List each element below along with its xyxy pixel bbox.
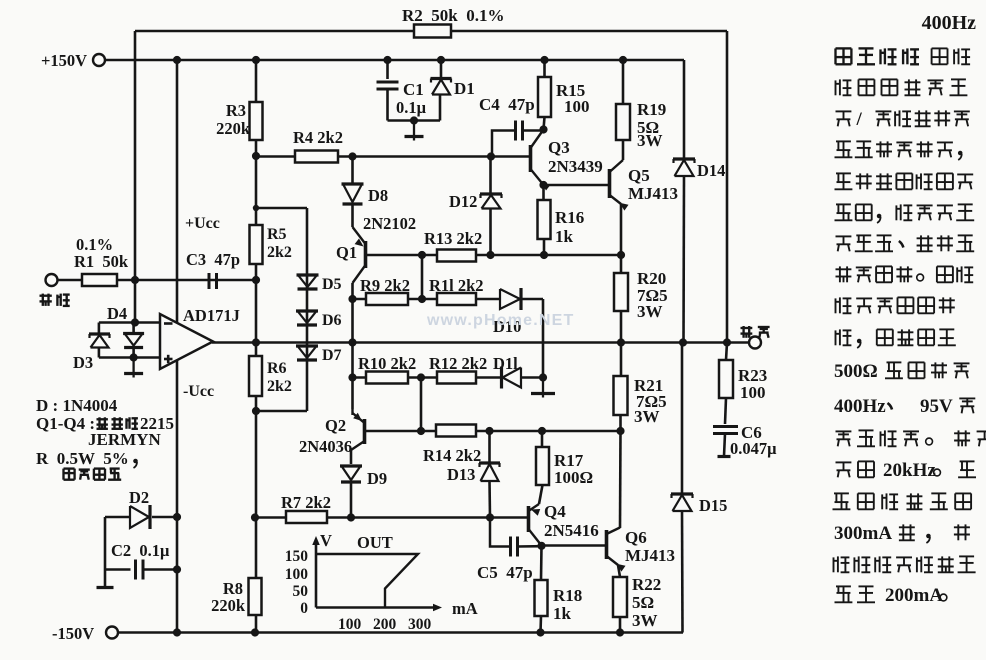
svg-text:D14: D14 <box>697 161 725 180</box>
wire D15 hang <box>681 343 684 494</box>
svg-text:0.047μ: 0.047μ <box>730 439 777 458</box>
diode D11 <box>500 367 503 389</box>
svg-text:50: 50 <box>293 583 309 600</box>
svg-text:www.pHome.NET: www.pHome.NET <box>426 312 574 329</box>
node R10 left junction <box>348 373 356 381</box>
svg-text:V: V <box>320 531 332 550</box>
resistor R22 <box>613 577 627 617</box>
node D8 top junction <box>348 152 356 160</box>
svg-text:R1l 2k2: R1l 2k2 <box>429 276 484 295</box>
svg-text:D5: D5 <box>322 276 342 293</box>
svg-text:200mA: 200mA <box>885 585 943 606</box>
diode D14 <box>673 157 695 160</box>
resistor R10 <box>366 372 408 384</box>
resistor R4 <box>295 151 338 163</box>
wire Q2 emitter to D9 <box>350 450 353 464</box>
wire diode-chain top <box>256 207 307 210</box>
node feedback R23 junction <box>723 338 731 346</box>
svg-text:C2 0.1μ: C2 0.1μ <box>111 541 170 560</box>
wire R14 line y431 <box>421 430 621 433</box>
node R21 bottom junction <box>616 427 624 435</box>
svg-text:R13 2k2: R13 2k2 <box>424 229 482 248</box>
svg-text:D6: D6 <box>322 312 342 329</box>
wire D14 to output rail <box>682 176 685 343</box>
wire R10 R12 D11 line y377.5 <box>353 376 501 379</box>
diode D8 <box>342 182 364 185</box>
wire +150V rail <box>105 59 684 62</box>
svg-text:1k: 1k <box>553 604 572 623</box>
diode D13 <box>479 461 500 464</box>
wire Q1 base line y255 <box>366 254 622 257</box>
wire -150V rail <box>118 631 683 634</box>
svg-text:100Ω: 100Ω <box>554 468 593 487</box>
wire Q1 emitter vertical <box>351 283 354 409</box>
diode D4 <box>123 332 144 335</box>
svg-text:R9 2k2: R9 2k2 <box>360 276 410 295</box>
svg-text:100: 100 <box>740 383 766 402</box>
wire Q3 emitter to Q5 base <box>544 184 610 187</box>
svg-text:D12: D12 <box>449 192 477 211</box>
svg-text:200: 200 <box>373 616 397 633</box>
diode D3 <box>89 332 110 335</box>
wire D10-D11 vertical <box>542 299 545 378</box>
svg-text:400Hz: 400Hz <box>922 12 977 34</box>
graph OUT curve <box>316 554 418 608</box>
node R14 left junction <box>417 427 425 435</box>
ground below D4 <box>132 358 134 374</box>
diode D2 <box>105 516 130 519</box>
resistor R23 <box>726 343 727 361</box>
wire R13-R9 vertical <box>421 255 424 299</box>
wire R7 line to Q4 base <box>255 516 529 519</box>
svg-text:+150V: +150V <box>41 51 87 70</box>
capacitor C4 <box>514 121 517 141</box>
svg-text:D3: D3 <box>73 353 93 372</box>
wire opamp minus input <box>134 280 137 323</box>
svg-text:2k2: 2k2 <box>267 244 292 261</box>
svg-text:MJ413: MJ413 <box>625 546 675 565</box>
svg-text:0: 0 <box>300 600 308 617</box>
wire Q6 collector vertical <box>619 431 622 528</box>
wire Ucc supply vertical <box>176 60 179 633</box>
node R8 bottom junction <box>251 628 259 636</box>
label output 输出 <box>741 326 753 338</box>
diode D12 <box>480 192 502 195</box>
node Q3 collector junction <box>539 125 547 133</box>
svg-text:300: 300 <box>408 616 432 633</box>
wire R10-R14 vertical <box>420 378 423 432</box>
wire opamp plus input <box>99 356 160 359</box>
wire D4 branch <box>132 323 135 334</box>
diode D6 <box>296 309 318 312</box>
svg-text:100: 100 <box>285 566 309 583</box>
svg-text:3W: 3W <box>637 302 663 321</box>
node D13 bottom junction <box>486 513 494 521</box>
svg-text:D1: D1 <box>454 79 475 98</box>
node Ucc bottom junction <box>173 628 181 636</box>
transistor Q4 <box>527 506 531 532</box>
svg-text:5Ω: 5Ω <box>632 593 654 612</box>
svg-text:C4 47p: C4 47p <box>479 95 535 114</box>
svg-text:R7 2k2: R7 2k2 <box>281 493 331 512</box>
resistor R16 <box>542 185 545 200</box>
node R18 bottom junction <box>536 628 544 636</box>
transistor Q3 <box>529 145 533 172</box>
wire feedback right vertical <box>726 31 729 343</box>
wire output rail y342.5 <box>212 341 755 344</box>
output terminal <box>749 337 761 349</box>
node R13 left junction <box>418 251 426 259</box>
svg-text:Q1-Q4 :: Q1-Q4 : <box>36 414 95 433</box>
node R22 bottom junction <box>616 628 624 636</box>
node D11 right junction <box>539 373 547 381</box>
svg-text:mA: mA <box>452 599 478 618</box>
wire D15 to bottom rail <box>681 511 684 633</box>
resistor R3 <box>250 102 263 140</box>
node Q5 emitter junction <box>617 251 625 259</box>
wire D9 to R7 line <box>350 482 353 518</box>
resistor R11 <box>437 293 476 305</box>
capacitor C2 <box>104 517 107 570</box>
ground below C1 D1 <box>413 121 415 137</box>
resistor R7 <box>286 511 327 523</box>
-150V terminal <box>106 627 118 639</box>
diode D5 <box>297 273 319 276</box>
svg-text:+Ucc: +Ucc <box>185 215 220 232</box>
svg-text:-150V: -150V <box>52 624 94 643</box>
wire R4 line to Q3 base <box>256 155 530 158</box>
wire D11 right <box>521 376 543 379</box>
wire diode-chain vertical <box>306 208 309 411</box>
svg-text:2N2102: 2N2102 <box>363 214 416 233</box>
node R1 feedback junction <box>131 276 139 284</box>
resistor R18 <box>540 546 543 580</box>
node R15 rail junction <box>540 56 548 64</box>
node Q3 emitter junction <box>539 181 547 189</box>
node R9 R11 junction <box>418 295 426 303</box>
transistor Q2 <box>351 409 353 415</box>
wire feedback top line <box>135 30 414 33</box>
svg-text:R 0.5W 5%: R 0.5W 5% <box>36 449 129 468</box>
node D1 rail junction <box>437 56 445 64</box>
svg-text:3W: 3W <box>634 407 660 426</box>
svg-text:D13: D13 <box>447 465 475 484</box>
svg-text:Q5: Q5 <box>628 166 650 185</box>
resistor R13 <box>437 250 476 262</box>
svg-text:AD171J: AD171J <box>183 306 240 325</box>
svg-text:Q3: Q3 <box>548 138 570 157</box>
svg-text:JERMYN: JERMYN <box>88 430 161 449</box>
svg-text:2k2: 2k2 <box>267 378 292 395</box>
wire R3 bias chain vertical <box>255 60 258 633</box>
wire feedback left vertical <box>134 31 137 281</box>
svg-text:R12 2k2: R12 2k2 <box>429 354 487 373</box>
node D12 bottom junction <box>486 251 494 259</box>
svg-text:D8: D8 <box>368 186 388 205</box>
wire D10 to vertical <box>521 298 543 301</box>
node C1 D1 junction <box>410 116 418 124</box>
node R10 R12 junction <box>417 373 425 381</box>
svg-text:D : 1N4004: D : 1N4004 <box>36 396 118 415</box>
capacitor C5 <box>509 537 512 557</box>
resistor R19 <box>622 60 625 104</box>
node D4 bottom junction <box>130 353 138 361</box>
label input 输入 <box>40 294 52 306</box>
resistor R12 <box>437 372 476 384</box>
diode D7 <box>296 344 318 347</box>
resistor R8 <box>249 578 262 615</box>
svg-text:R22: R22 <box>632 575 661 594</box>
resistor R1 <box>82 274 117 286</box>
resistor R2 <box>414 25 451 38</box>
diode D1 <box>440 60 443 78</box>
wire Q4 emitter to Q6 base <box>542 544 607 547</box>
svg-text:20kHz: 20kHz <box>883 460 936 481</box>
svg-text:500Ω: 500Ω <box>834 361 878 382</box>
node C3 right junction <box>252 276 260 284</box>
svg-text:Q6: Q6 <box>625 528 647 547</box>
ground below C2 stub <box>104 570 107 588</box>
svg-text:2N3439: 2N3439 <box>548 157 603 176</box>
diode D13 vertical wire <box>488 431 491 463</box>
svg-text:R16: R16 <box>555 208 584 227</box>
node Q4 emitter junction <box>537 542 545 550</box>
wire D14 hang <box>683 60 686 158</box>
diode D15 <box>671 492 693 495</box>
svg-text:2N5416: 2N5416 <box>544 521 599 540</box>
svg-text:-Ucc: -Ucc <box>183 383 214 400</box>
resistor R5 <box>250 225 263 264</box>
svg-text:3W: 3W <box>637 131 663 150</box>
svg-text:/: / <box>856 109 863 130</box>
svg-text:Q1: Q1 <box>336 243 357 262</box>
node C1 rail junction <box>383 56 391 64</box>
diode D10 <box>500 289 520 309</box>
node C4 D12 junction <box>487 152 495 160</box>
svg-text:D2: D2 <box>129 488 149 507</box>
graph OUT y-axis <box>315 540 318 608</box>
node diode-chain bottom junction <box>252 407 260 415</box>
wire D8 to Q1 collector <box>351 157 354 185</box>
svg-text:95V: 95V <box>920 396 953 417</box>
svg-text:C3 47p: C3 47p <box>186 250 240 269</box>
transistor Q1 <box>364 241 368 268</box>
resistor R15 <box>543 60 546 77</box>
caption paragraph <box>836 48 852 64</box>
node C2 junction <box>173 565 181 573</box>
svg-text:MJ413: MJ413 <box>628 184 678 203</box>
svg-text:R18: R18 <box>553 586 582 605</box>
svg-text:R4 2k2: R4 2k2 <box>293 128 343 147</box>
wire Q2 base line <box>365 430 422 433</box>
svg-text:220k: 220k <box>211 596 246 615</box>
svg-text:D15: D15 <box>699 496 727 515</box>
input terminal <box>46 274 58 286</box>
svg-text:R3: R3 <box>226 101 246 120</box>
svg-text:R10 2k2: R10 2k2 <box>358 354 416 373</box>
node R9 left junction <box>348 295 356 303</box>
svg-text:R2 50k 0.1%: R2 50k 0.1% <box>402 6 504 25</box>
op-amp U1 AD171J <box>160 314 213 369</box>
transistor Q5 <box>608 169 612 198</box>
svg-text:R5: R5 <box>267 226 287 243</box>
node diode-chain top junction <box>252 152 260 160</box>
svg-text:3W: 3W <box>632 611 658 630</box>
resistor R21 <box>620 343 623 377</box>
ground below D11 <box>542 378 544 394</box>
svg-text:0.1μ: 0.1μ <box>396 98 427 117</box>
node R3 rail junction <box>252 56 260 64</box>
diode D9 <box>340 464 362 467</box>
node Q-line rail junction <box>348 338 356 346</box>
capacitor C3 <box>208 273 211 289</box>
svg-text:R14 2k2: R14 2k2 <box>423 446 481 465</box>
svg-text:400Hz: 400Hz <box>834 396 886 417</box>
svg-text:D1l: D1l <box>493 354 518 373</box>
svg-text:300mA: 300mA <box>834 523 892 544</box>
svg-text:D4: D4 <box>107 304 127 323</box>
svg-text:D9: D9 <box>367 469 387 488</box>
transistor Q6 <box>605 530 609 559</box>
node R20 R21 junction <box>617 338 625 346</box>
wire D3 branch <box>98 323 101 335</box>
node D2 junction <box>173 513 181 521</box>
node R19 rail junction <box>619 56 627 64</box>
svg-text:Q2: Q2 <box>325 416 346 435</box>
svg-text:2N4036: 2N4036 <box>299 437 352 456</box>
svg-text:D7: D7 <box>322 347 342 364</box>
node R16 bottom junction <box>540 251 548 259</box>
svg-text:220k: 220k <box>216 119 251 138</box>
wire diode-chain bottom <box>256 410 307 413</box>
capacitor C6 <box>713 425 738 428</box>
svg-text:R19: R19 <box>637 100 666 119</box>
wire C1 D1 common <box>388 119 441 122</box>
node R7 left junction <box>251 513 259 521</box>
node D9 bottom junction <box>347 513 355 521</box>
svg-text:100: 100 <box>338 616 362 633</box>
node R17 top junction <box>538 427 546 435</box>
node Ucc rail junction <box>173 56 181 64</box>
svg-text:R6: R6 <box>267 360 287 377</box>
resistor R9 <box>366 293 408 305</box>
resistor R20 <box>620 255 623 273</box>
+150V terminal <box>93 54 105 66</box>
svg-text:100: 100 <box>564 97 590 116</box>
resistor R6 <box>249 356 262 396</box>
graph OUT x-axis <box>316 606 437 609</box>
wire Q5 emitter down <box>620 204 623 255</box>
node D14 D15 junction <box>679 338 687 346</box>
wire Q6 emitter to R22 <box>618 565 620 577</box>
resistor R17 <box>541 431 544 447</box>
svg-text:1k: 1k <box>555 227 574 246</box>
svg-text:R1 50k: R1 50k <box>74 252 129 271</box>
node D13 top junction <box>485 427 493 435</box>
svg-text:Q4: Q4 <box>544 502 566 521</box>
svg-text:150: 150 <box>285 548 309 565</box>
svg-text:OUT: OUT <box>357 533 393 552</box>
wire input line <box>58 279 256 282</box>
capacitor C1 <box>386 60 389 79</box>
svg-text:C5 47p: C5 47p <box>477 563 533 582</box>
node opamp output junction <box>252 338 260 346</box>
diode D12 vertical wire <box>489 157 492 195</box>
wire R9 R11 D10 line y299 <box>353 298 501 301</box>
resistor R14 <box>436 425 476 437</box>
svg-text:C1: C1 <box>403 80 424 99</box>
